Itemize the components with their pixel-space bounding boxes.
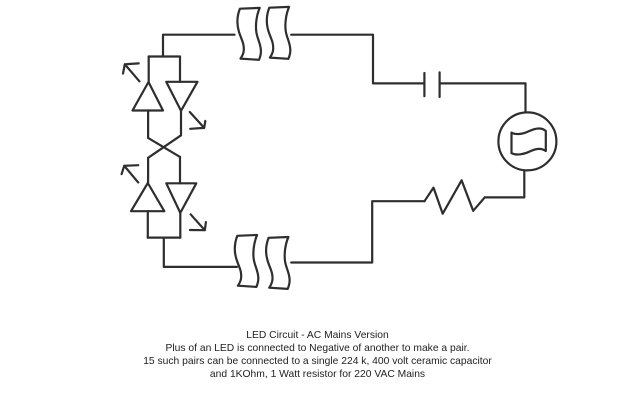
wire lower-left from LED block to lower break	[164, 238, 237, 267]
wire AC source bottom to resistor right	[486, 171, 525, 198]
capacitor C1 left plate	[423, 73, 425, 96]
wire top-left from LED block to first break	[163, 35, 235, 57]
caption text	[0, 329, 620, 382]
break symbol bottom 2	[266, 237, 290, 289]
wire capacitor to AC source top	[441, 83, 526, 112]
AC source circle	[498, 112, 556, 170]
crossover wire right-to-left	[148, 135, 181, 158]
wire below D4	[179, 213, 181, 238]
LED D2 triangle (down)	[166, 82, 197, 111]
LED D4 triangle (down)	[166, 183, 196, 213]
wire below D1	[147, 111, 149, 138]
break symbol top 2	[267, 7, 291, 59]
wire top-right from second break to cap branch corner	[291, 35, 423, 84]
wire below D3	[147, 211, 149, 237]
break symbol bottom 1	[235, 235, 259, 287]
capacitor C1 right plate	[439, 72, 441, 97]
wire pair1 left leg	[148, 57, 150, 83]
LED D3 emission arrow	[122, 165, 139, 182]
LED pair 1 top bar	[149, 55, 180, 57]
wire below D2	[180, 111, 182, 136]
wire to D3 apex	[147, 158, 149, 183]
resistor R1 zigzag	[425, 180, 485, 213]
LED D1 triangle (up)	[133, 82, 164, 111]
wire to D4 base	[179, 157, 181, 183]
LED pair 2 bottom bar	[148, 237, 181, 239]
break symbol top 1	[237, 8, 261, 60]
wire resistor left to bottom-right corner down to lower break	[291, 201, 424, 262]
crossover wire left-to-right	[148, 138, 180, 157]
LED D4 emission arrow	[190, 214, 206, 230]
LED D2 emission arrow	[190, 112, 206, 129]
LED D3 triangle (up)	[131, 183, 164, 211]
wire pair1 right leg	[179, 57, 181, 82]
LED D1 emission arrow	[123, 63, 139, 81]
AC source wave flag	[512, 129, 546, 155]
